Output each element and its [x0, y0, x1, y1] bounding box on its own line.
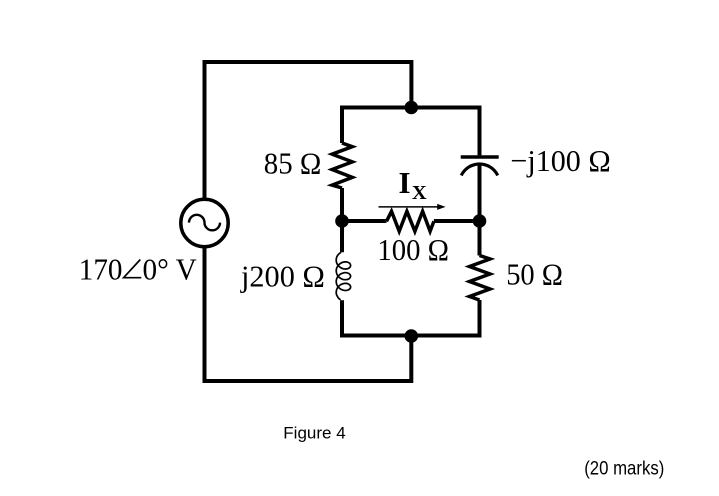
- wire inner right middle: [478, 164, 482, 256]
- wire middle right: [434, 219, 480, 223]
- wire inner left middle: [340, 188, 344, 252]
- label -j100 ohm: [510, 143, 610, 178]
- label 85 ohm: [264, 145, 322, 180]
- caption Figure 4: [283, 424, 345, 443]
- resistor 50 ohm: [470, 256, 491, 301]
- wire inner right upper: [478, 108, 482, 156]
- label 20 marks: [584, 459, 664, 480]
- svg-text:170: 170: [79, 251, 123, 286]
- label 50 ohm: [506, 256, 563, 291]
- angle symbol: [124, 260, 142, 278]
- inductor j200 ohm: [336, 252, 350, 299]
- svg-text:85 Ω: 85 Ω: [264, 145, 322, 180]
- svg-text:Figure 4: Figure 4: [283, 424, 345, 443]
- wire inner top: [342, 108, 480, 110]
- svg-text:X: X: [412, 182, 427, 204]
- label 170 source: [79, 251, 123, 286]
- wire middle left: [342, 219, 387, 223]
- node middle left: [335, 214, 349, 228]
- svg-text:50 Ω: 50 Ω: [506, 256, 563, 291]
- label 100 ohm: [377, 232, 449, 267]
- node top: [405, 101, 419, 115]
- node bottom: [405, 329, 419, 343]
- svg-text:I: I: [399, 165, 411, 200]
- current arrow Ix: [379, 204, 446, 210]
- svg-text:(20 marks): (20 marks): [584, 459, 664, 480]
- svg-text:100 Ω: 100 Ω: [377, 232, 449, 267]
- wire inner left lower: [342, 300, 480, 336]
- wire outer bottom/left: [205, 247, 412, 381]
- label Ix: [399, 165, 427, 204]
- label j200 ohm: [240, 258, 325, 293]
- wire inner left upper: [340, 108, 344, 144]
- voltage source VS 170∠0° V: [181, 199, 228, 246]
- resistor 85 ohm: [332, 143, 352, 188]
- node middle right: [473, 214, 487, 228]
- resistor 100 ohm: [387, 211, 434, 231]
- svg-text:0° V: 0° V: [143, 251, 198, 286]
- svg-text:−j100 Ω: −j100 Ω: [510, 143, 610, 178]
- wire outer top/left: [205, 62, 412, 199]
- capacitor -j100 ohm: [461, 157, 499, 175]
- label 0 deg V: [143, 251, 198, 286]
- svg-text:j200 Ω: j200 Ω: [240, 258, 325, 293]
